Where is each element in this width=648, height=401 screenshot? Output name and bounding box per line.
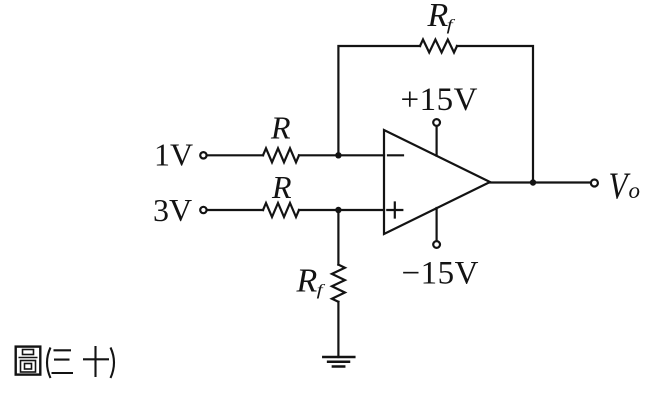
svg-text:R: R bbox=[270, 109, 291, 145]
terminal 3V bbox=[200, 207, 206, 213]
junction node non-inverting input bbox=[335, 207, 341, 213]
label Rf (feedback resistor) bbox=[427, 0, 456, 34]
caption glyph 十 bbox=[83, 346, 109, 377]
svg-text:3V: 3V bbox=[153, 192, 192, 228]
svg-text:1V: 1V bbox=[154, 137, 193, 173]
op-amp U1 triangle bbox=[384, 130, 490, 234]
junction node output bbox=[530, 179, 536, 185]
ground bbox=[323, 357, 354, 367]
terminal Vo bbox=[591, 180, 598, 187]
resistor R (top input) bbox=[263, 148, 299, 162]
op-amp plus input symbol bbox=[387, 203, 402, 218]
terminal -15V bbox=[433, 241, 440, 248]
wire Rf to ground bbox=[337, 302, 339, 357]
label R (top input resistor) bbox=[270, 109, 291, 145]
caption glyph 圖 bbox=[16, 347, 41, 375]
wire feedback left vertical (inverting node to top) bbox=[338, 46, 420, 155]
svg-text:o: o bbox=[629, 178, 641, 203]
wire input 2 (resistor to op-amp plus) bbox=[299, 209, 384, 211]
caption 圖(三十) drawn as strokes bbox=[16, 346, 114, 378]
svg-text:R: R bbox=[427, 0, 449, 34]
caption glyph ) bbox=[111, 348, 115, 379]
svg-text:f: f bbox=[447, 17, 456, 34]
svg-text:f: f bbox=[317, 282, 326, 299]
resistor R (bottom input) bbox=[263, 203, 299, 217]
label Vo (output voltage) bbox=[609, 164, 641, 207]
wire input 1 (resistor to op-amp minus) bbox=[299, 154, 384, 156]
resistor Rf (feedback) bbox=[420, 40, 457, 53]
label 1V bbox=[154, 137, 193, 173]
wire +15V supply to op-amp bbox=[436, 126, 438, 156]
svg-text:+15V: +15V bbox=[401, 82, 478, 118]
label Rf (grounding resistor) bbox=[296, 263, 326, 300]
wire op-amp to -15V supply bbox=[436, 208, 438, 241]
svg-text:R: R bbox=[271, 169, 292, 205]
label -15V bbox=[402, 256, 479, 292]
wire feedback right vertical (top to output node) bbox=[457, 46, 533, 183]
op-amp minus input symbol bbox=[388, 154, 403, 156]
wire input 1 (1V terminal to resistor) bbox=[207, 154, 263, 156]
svg-text:R: R bbox=[296, 263, 318, 300]
caption glyph 三 bbox=[52, 350, 74, 373]
wire output (apex to Vo terminal) bbox=[490, 181, 591, 183]
label 3V bbox=[153, 192, 192, 228]
label +15V bbox=[401, 82, 478, 118]
terminal +15V bbox=[433, 119, 440, 126]
resistor Rf (to ground, vertical) bbox=[332, 265, 345, 302]
wire input 2 (3V terminal to resistor) bbox=[207, 209, 263, 211]
label R (bottom input resistor) bbox=[271, 169, 292, 205]
junction node inverting input bbox=[335, 152, 341, 158]
caption glyph ( bbox=[47, 348, 51, 379]
wire plus node down to Rf bbox=[337, 210, 339, 265]
terminal 1V bbox=[200, 152, 206, 158]
svg-text:−15V: −15V bbox=[402, 256, 479, 292]
